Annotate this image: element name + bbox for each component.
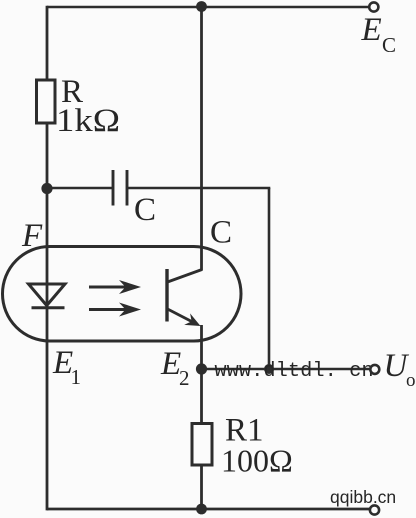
svg-text:o: o — [406, 370, 416, 391]
left rail wire lower — [46, 123, 49, 510]
svg-text:C: C — [382, 33, 396, 57]
LED cathode bar — [32, 306, 65, 309]
capacitor C right plate — [126, 170, 129, 206]
wire vertical to output node — [268, 188, 271, 369]
node dot at R/C junction — [41, 183, 52, 194]
svg-text:2: 2 — [179, 366, 190, 390]
emitter wire vertical — [200, 325, 203, 424]
svg-text:E: E — [361, 12, 382, 48]
light arrow 1 head — [119, 280, 141, 294]
wire capacitor right — [128, 187, 270, 190]
light arrow 2 head — [119, 303, 141, 317]
svg-text:qqibb.cn: qqibb.cn — [330, 487, 396, 507]
svg-text:1kΩ: 1kΩ — [56, 103, 120, 139]
svg-text:C: C — [134, 192, 156, 228]
node dot E2 — [196, 363, 207, 374]
svg-text:www.dltdl. cn: www.dltdl. cn — [215, 360, 374, 383]
optocoupler package outline — [3, 247, 242, 342]
phototransistor base bar — [165, 269, 168, 322]
resistor R1k body — [37, 80, 56, 123]
node dot top rail — [196, 1, 207, 12]
svg-text:F: F — [21, 218, 43, 254]
node dot capacitor branch — [264, 364, 274, 374]
svg-text:1: 1 — [71, 365, 82, 389]
light arrow 2 shaft — [89, 308, 128, 311]
terminal EC open circle — [369, 2, 378, 11]
node dot bottom rail — [196, 504, 207, 515]
collector wire vertical — [200, 6, 203, 271]
top rail wire — [47, 6, 370, 9]
phototransistor collector lead — [168, 270, 203, 283]
light arrow 1 shaft — [89, 286, 128, 289]
terminal bottom open circle — [370, 505, 379, 514]
svg-text:E: E — [160, 346, 181, 382]
capacitor C left plate — [112, 170, 115, 206]
resistor R1 body — [192, 424, 212, 466]
phototransistor emitter lead — [168, 309, 198, 324]
svg-text:100Ω: 100Ω — [221, 443, 293, 479]
wire capacitor left — [47, 187, 112, 190]
output wire horizontal — [202, 368, 371, 371]
bottom rail wire — [47, 508, 370, 511]
left rail wire upper — [46, 6, 49, 80]
LED triangle — [29, 284, 66, 306]
phototransistor emitter arrow — [184, 313, 200, 326]
wire below R1 — [200, 465, 203, 509]
terminal Uo open circle — [370, 365, 379, 374]
svg-text:C: C — [210, 215, 232, 251]
